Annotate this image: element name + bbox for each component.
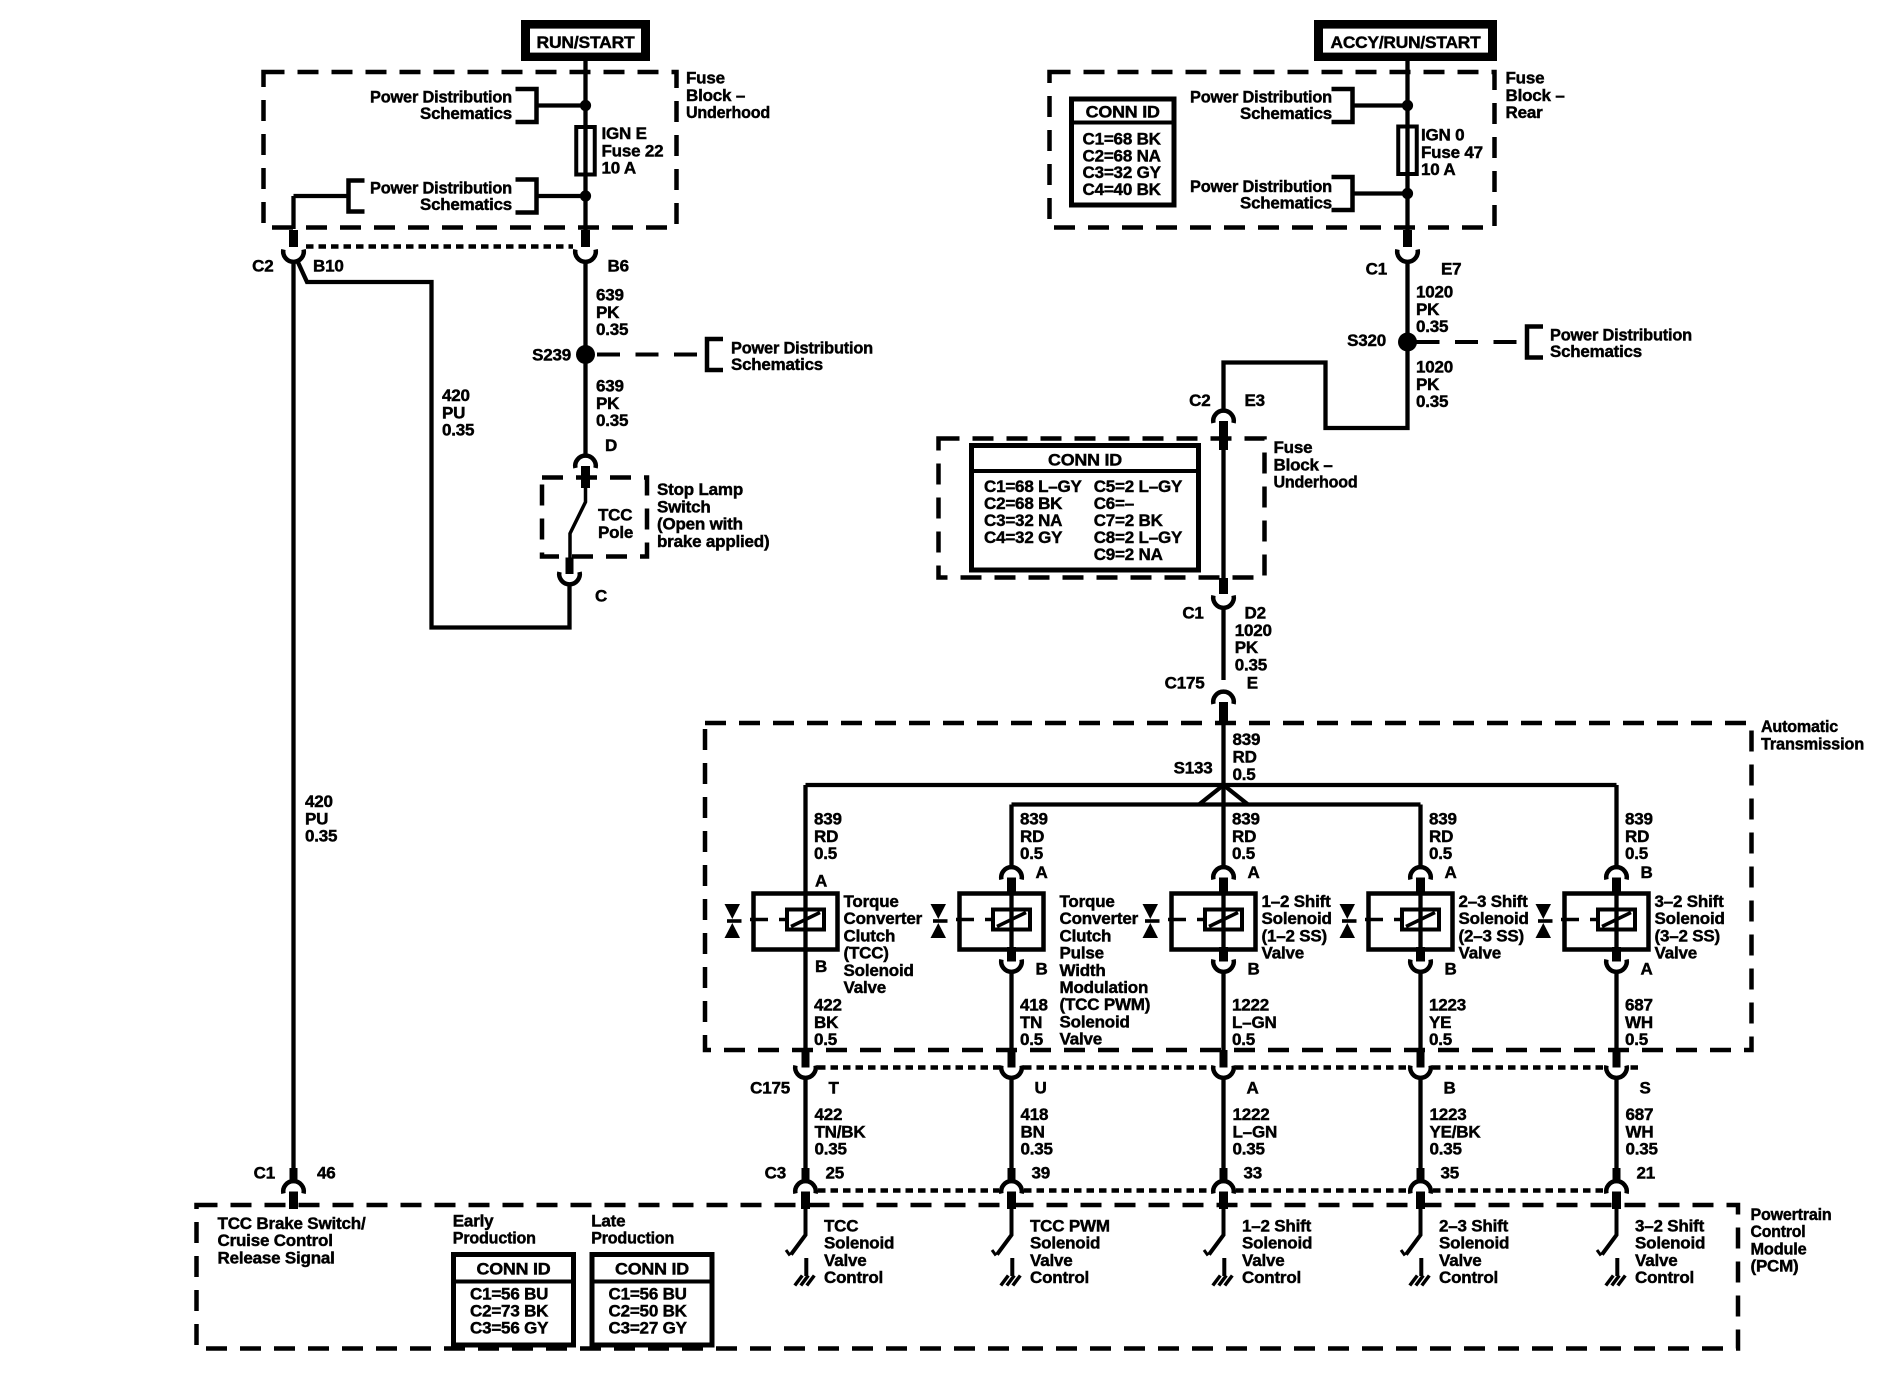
svg-text:RD: RD	[1233, 748, 1257, 767]
svg-text:TN/BK: TN/BK	[815, 1122, 867, 1141]
svg-text:Schematics: Schematics	[420, 104, 512, 123]
svg-text:Schematics: Schematics	[1240, 194, 1332, 213]
svg-text:Pole: Pole	[598, 523, 633, 542]
svg-text:B: B	[1248, 960, 1260, 979]
svg-text:C175: C175	[750, 1079, 790, 1098]
svg-text:839: 839	[1020, 810, 1048, 829]
svg-text:PK: PK	[596, 394, 620, 413]
svg-text:33: 33	[1244, 1164, 1263, 1183]
svg-text:420: 420	[442, 386, 470, 405]
svg-text:3–2 Shift: 3–2 Shift	[1655, 892, 1725, 911]
svg-text:TCC Brake Switch/: TCC Brake Switch/	[218, 1214, 366, 1233]
svg-text:A: A	[1036, 863, 1048, 882]
svg-text:839: 839	[1625, 810, 1653, 829]
svg-text:Release Signal: Release Signal	[218, 1248, 335, 1267]
svg-text:Solenoid: Solenoid	[824, 1234, 894, 1253]
svg-text:Valve: Valve	[1030, 1251, 1073, 1270]
svg-text:RUN/START: RUN/START	[537, 33, 636, 52]
svg-text:C3=27 GY: C3=27 GY	[609, 1319, 688, 1338]
svg-text:Solenoid: Solenoid	[1262, 909, 1332, 928]
svg-text:RD: RD	[814, 827, 838, 846]
svg-text:Fuse 22: Fuse 22	[602, 141, 664, 160]
svg-text:Schematics: Schematics	[420, 195, 512, 214]
svg-text:Clutch: Clutch	[1060, 926, 1112, 945]
svg-text:639: 639	[596, 377, 624, 396]
svg-text:0.35: 0.35	[1233, 1140, 1265, 1159]
svg-text:839: 839	[814, 810, 842, 829]
svg-text:1222: 1222	[1233, 1105, 1270, 1124]
svg-text:TN: TN	[1020, 1013, 1042, 1032]
svg-text:Torque: Torque	[844, 892, 899, 911]
svg-text:1–2 Shift: 1–2 Shift	[1242, 1217, 1312, 1236]
svg-text:U: U	[1035, 1079, 1047, 1098]
svg-text:0.35: 0.35	[442, 421, 474, 440]
svg-text:Fuse 47: Fuse 47	[1421, 143, 1483, 162]
svg-text:422: 422	[814, 996, 842, 1015]
svg-text:0.5: 0.5	[1625, 1030, 1648, 1049]
svg-text:(TCC): (TCC)	[844, 944, 889, 963]
svg-text:Fuse: Fuse	[1506, 69, 1545, 88]
svg-text:Control: Control	[1242, 1268, 1301, 1287]
svg-text:CONN ID: CONN ID	[477, 1260, 551, 1279]
svg-text:(1–2 SS): (1–2 SS)	[1262, 926, 1328, 945]
svg-text:A: A	[815, 872, 827, 891]
svg-text:422: 422	[815, 1105, 843, 1124]
svg-text:A: A	[1641, 960, 1653, 979]
svg-text:B6: B6	[608, 257, 629, 276]
svg-text:Converter: Converter	[1060, 909, 1139, 928]
svg-text:Switch: Switch	[657, 497, 711, 516]
svg-text:35: 35	[1441, 1164, 1460, 1183]
svg-text:C175: C175	[1165, 674, 1205, 693]
svg-text:Cruise Control: Cruise Control	[218, 1231, 333, 1250]
svg-text:Schematics: Schematics	[1240, 104, 1332, 123]
svg-text:Control: Control	[1439, 1268, 1498, 1287]
svg-text:Schematics: Schematics	[731, 355, 823, 374]
svg-text:Converter: Converter	[844, 909, 923, 928]
svg-text:1020: 1020	[1235, 621, 1272, 640]
svg-text:839: 839	[1232, 810, 1260, 829]
svg-text:RD: RD	[1429, 827, 1453, 846]
svg-text:L–GN: L–GN	[1233, 1122, 1278, 1141]
svg-text:CONN ID: CONN ID	[1086, 103, 1160, 122]
svg-text:PU: PU	[442, 403, 465, 422]
svg-text:YE/BK: YE/BK	[1430, 1122, 1482, 1141]
svg-text:0.35: 0.35	[1626, 1140, 1658, 1159]
svg-text:Late: Late	[591, 1212, 625, 1231]
svg-text:Control: Control	[1030, 1268, 1089, 1287]
svg-text:0.5: 0.5	[814, 1030, 837, 1049]
svg-text:0.35: 0.35	[596, 320, 628, 339]
svg-text:Schematics: Schematics	[1550, 342, 1642, 361]
svg-text:Pulse: Pulse	[1060, 944, 1104, 963]
svg-text:BK: BK	[814, 1013, 839, 1032]
svg-text:RD: RD	[1625, 827, 1649, 846]
svg-text:Solenoid: Solenoid	[1439, 1234, 1509, 1253]
svg-text:(PCM): (PCM)	[1751, 1257, 1799, 1276]
svg-text:1020: 1020	[1416, 358, 1453, 377]
svg-text:C1: C1	[1182, 604, 1203, 623]
svg-text:IGN 0: IGN 0	[1421, 126, 1464, 145]
svg-text:Torque: Torque	[1060, 892, 1115, 911]
svg-text:TCC: TCC	[598, 506, 632, 525]
svg-text:Valve: Valve	[1262, 944, 1305, 963]
svg-text:Solenoid: Solenoid	[1060, 1012, 1130, 1031]
svg-text:0.35: 0.35	[305, 827, 337, 846]
svg-text:IGN E: IGN E	[602, 124, 647, 143]
svg-text:Valve: Valve	[1060, 1030, 1103, 1049]
svg-text:0.5: 0.5	[1232, 844, 1255, 863]
svg-text:A: A	[1247, 1079, 1259, 1098]
svg-text:WH: WH	[1626, 1122, 1654, 1141]
svg-text:Valve: Valve	[1242, 1251, 1285, 1270]
svg-text:D2: D2	[1245, 604, 1266, 623]
svg-text:S320: S320	[1347, 331, 1386, 350]
svg-text:Valve: Valve	[1635, 1251, 1678, 1270]
svg-text:RD: RD	[1020, 827, 1044, 846]
svg-text:B: B	[815, 957, 827, 976]
svg-text:C2: C2	[252, 257, 273, 276]
svg-text:418: 418	[1021, 1105, 1049, 1124]
svg-text:C4=40 BK: C4=40 BK	[1083, 180, 1162, 199]
svg-text:Solenoid: Solenoid	[1655, 909, 1725, 928]
svg-text:C2: C2	[1189, 391, 1210, 410]
svg-text:CONN ID: CONN ID	[1048, 451, 1122, 470]
svg-text:0.35: 0.35	[596, 411, 628, 430]
svg-text:BN: BN	[1021, 1122, 1045, 1141]
svg-text:C3: C3	[765, 1164, 786, 1183]
svg-text:0.35: 0.35	[1021, 1140, 1053, 1159]
svg-text:0.5: 0.5	[1429, 1030, 1452, 1049]
svg-text:3–2 Shift: 3–2 Shift	[1635, 1217, 1705, 1236]
svg-text:B: B	[1445, 960, 1457, 979]
svg-text:Valve: Valve	[1459, 944, 1502, 963]
svg-text:Solenoid: Solenoid	[1242, 1234, 1312, 1253]
svg-text:Clutch: Clutch	[844, 926, 896, 945]
svg-text:A: A	[1445, 863, 1457, 882]
svg-text:B: B	[1036, 960, 1048, 979]
svg-text:Block –: Block –	[1506, 86, 1565, 105]
svg-text:Modulation: Modulation	[1060, 978, 1149, 997]
svg-text:0.35: 0.35	[1430, 1140, 1462, 1159]
svg-text:B: B	[1444, 1079, 1456, 1098]
svg-text:(TCC PWM): (TCC PWM)	[1060, 995, 1151, 1014]
svg-text:Stop Lamp: Stop Lamp	[657, 480, 743, 499]
svg-text:WH: WH	[1625, 1013, 1653, 1032]
svg-text:PK: PK	[1416, 300, 1440, 319]
svg-text:2–3 Shift: 2–3 Shift	[1459, 892, 1529, 911]
svg-text:0.5: 0.5	[1429, 844, 1452, 863]
svg-text:Powertrain: Powertrain	[1751, 1205, 1832, 1224]
svg-text:0.35: 0.35	[1416, 392, 1448, 411]
svg-text:Control: Control	[824, 1268, 883, 1287]
svg-text:Valve: Valve	[844, 978, 887, 997]
svg-text:Block –: Block –	[1274, 455, 1333, 474]
svg-text:B: B	[1641, 863, 1653, 882]
svg-text:(2–3 SS): (2–3 SS)	[1459, 926, 1525, 945]
svg-text:Valve: Valve	[824, 1251, 867, 1270]
svg-text:PK: PK	[1416, 375, 1440, 394]
svg-text:PU: PU	[305, 809, 328, 828]
svg-text:1223: 1223	[1430, 1105, 1467, 1124]
svg-text:Solenoid: Solenoid	[844, 961, 914, 980]
svg-text:T: T	[829, 1079, 840, 1098]
svg-text:Transmission: Transmission	[1761, 734, 1864, 753]
svg-text:TCC PWM: TCC PWM	[1030, 1217, 1110, 1236]
svg-text:E: E	[1247, 674, 1258, 693]
svg-text:0.5: 0.5	[1625, 844, 1648, 863]
svg-text:S239: S239	[532, 346, 571, 365]
svg-text:Valve: Valve	[1655, 944, 1698, 963]
svg-text:Block –: Block –	[686, 86, 745, 105]
svg-text:E3: E3	[1245, 391, 1265, 410]
svg-text:1223: 1223	[1429, 996, 1466, 1015]
svg-text:Underhood: Underhood	[1274, 473, 1358, 492]
svg-text:S: S	[1640, 1079, 1651, 1098]
svg-text:0.5: 0.5	[1020, 844, 1043, 863]
svg-text:Module: Module	[1751, 1239, 1807, 1258]
svg-text:Rear: Rear	[1506, 103, 1544, 122]
svg-text:brake applied): brake applied)	[657, 532, 769, 551]
svg-text:PK: PK	[1235, 638, 1259, 657]
svg-text:C4=32 GY: C4=32 GY	[984, 528, 1063, 547]
svg-text:687: 687	[1625, 996, 1653, 1015]
svg-text:839: 839	[1429, 810, 1457, 829]
svg-text:418: 418	[1020, 996, 1048, 1015]
svg-text:10 A: 10 A	[1421, 160, 1455, 179]
svg-text:S133: S133	[1174, 759, 1213, 778]
svg-text:420: 420	[305, 792, 333, 811]
svg-text:Early: Early	[453, 1212, 494, 1231]
svg-text:C: C	[595, 587, 607, 606]
svg-text:839: 839	[1233, 730, 1261, 749]
svg-text:Production: Production	[591, 1229, 674, 1248]
svg-text:10 A: 10 A	[602, 159, 636, 178]
svg-text:639: 639	[596, 286, 624, 305]
svg-text:46: 46	[317, 1164, 336, 1183]
svg-text:(Open with: (Open with	[657, 515, 743, 534]
svg-text:1–2 Shift: 1–2 Shift	[1262, 892, 1332, 911]
svg-text:E7: E7	[1441, 260, 1461, 279]
svg-text:PK: PK	[596, 303, 620, 322]
svg-text:Solenoid: Solenoid	[1459, 909, 1529, 928]
svg-text:ACCY/RUN/START: ACCY/RUN/START	[1331, 33, 1482, 52]
svg-text:Control: Control	[1751, 1222, 1806, 1241]
svg-text:Fuse: Fuse	[686, 69, 725, 88]
svg-text:C1: C1	[1366, 260, 1387, 279]
svg-text:C3=56 GY: C3=56 GY	[470, 1319, 549, 1338]
svg-text:C1: C1	[254, 1164, 275, 1183]
svg-text:Control: Control	[1635, 1268, 1694, 1287]
svg-text:Width: Width	[1060, 961, 1106, 980]
svg-text:21: 21	[1637, 1164, 1656, 1183]
svg-text:0.35: 0.35	[1235, 656, 1267, 675]
svg-text:A: A	[1248, 863, 1260, 882]
svg-text:1020: 1020	[1416, 283, 1453, 302]
svg-text:Underhood: Underhood	[686, 103, 770, 122]
svg-text:TCC: TCC	[824, 1217, 858, 1236]
svg-text:25: 25	[826, 1164, 845, 1183]
svg-text:Solenoid: Solenoid	[1030, 1234, 1100, 1253]
svg-text:2–3 Shift: 2–3 Shift	[1439, 1217, 1509, 1236]
svg-text:(3–2 SS): (3–2 SS)	[1655, 926, 1721, 945]
svg-text:1222: 1222	[1232, 996, 1269, 1015]
svg-text:Automatic: Automatic	[1761, 717, 1838, 736]
svg-text:CONN ID: CONN ID	[615, 1260, 689, 1279]
svg-text:39: 39	[1032, 1164, 1051, 1183]
svg-text:L–GN: L–GN	[1232, 1013, 1277, 1032]
svg-text:0.5: 0.5	[1020, 1030, 1043, 1049]
svg-text:Fuse: Fuse	[1274, 438, 1313, 457]
svg-text:C9=2 NA: C9=2 NA	[1094, 545, 1163, 564]
svg-text:0.5: 0.5	[814, 844, 837, 863]
svg-text:687: 687	[1626, 1105, 1654, 1124]
svg-text:0.35: 0.35	[815, 1140, 847, 1159]
svg-text:YE: YE	[1429, 1013, 1451, 1032]
svg-text:Solenoid: Solenoid	[1635, 1234, 1705, 1253]
svg-text:D: D	[605, 436, 617, 455]
svg-text:B10: B10	[313, 257, 344, 276]
svg-text:0.5: 0.5	[1233, 765, 1256, 784]
svg-text:Production: Production	[453, 1229, 536, 1248]
svg-text:Valve: Valve	[1439, 1251, 1482, 1270]
svg-text:0.5: 0.5	[1232, 1030, 1255, 1049]
svg-text:0.35: 0.35	[1416, 317, 1448, 336]
svg-text:RD: RD	[1232, 827, 1256, 846]
